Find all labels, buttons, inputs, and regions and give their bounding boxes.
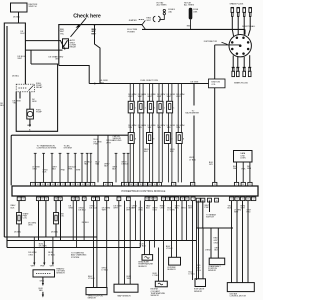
svg-text:8: 8 <box>135 138 136 140</box>
svg-text:LT BLU: LT BLU <box>102 269 109 271</box>
svg-text:8: 8 <box>171 138 172 140</box>
svg-text:LT BLU: LT BLU <box>166 248 173 250</box>
svg-text:23: 23 <box>59 199 61 201</box>
wires middle sensors <box>86 152 89 154</box>
wires brake switch <box>197 201 199 228</box>
svg-text:BLU: BLU <box>0 105 4 107</box>
svg-text:ALL TIMES: ALL TIMES <box>184 4 195 7</box>
svg-text:RED: RED <box>187 25 192 27</box>
svg-text:LT BLU: LT BLU <box>189 159 196 161</box>
svg-text:ORG: ORG <box>181 208 186 210</box>
wire enclosure feed <box>30 50 32 64</box>
svg-text:DK BLU: DK BLU <box>13 17 21 19</box>
fuel injectors row 1 <box>128 101 134 113</box>
wire coil to PCM <box>214 88 216 183</box>
svg-text:DK BLU: DK BLU <box>90 207 98 209</box>
svg-text:21: 21 <box>76 199 78 201</box>
fuel tank enclosure <box>16 64 57 131</box>
svg-text:WHT: WHT <box>31 266 36 268</box>
svg-text:57: 57 <box>42 199 44 201</box>
svg-text:CONTROLS SYSTEM: CONTROLS SYSTEM <box>37 147 57 149</box>
wire to distributor drop <box>244 29 246 34</box>
svg-text:DK BLU: DK BLU <box>12 75 20 77</box>
wires distributor to plugs bottom <box>232 56 234 68</box>
svg-text:35: 35 <box>154 199 156 201</box>
wire injector bus <box>89 83 208 85</box>
node junction bus <box>94 24 96 26</box>
svg-text:WHT: WHT <box>91 33 96 35</box>
svg-text:LT GRN: LT GRN <box>167 210 175 212</box>
svg-text:SPARK PLUGS: SPARK PLUGS <box>234 82 248 85</box>
svg-text:43: 43 <box>247 199 249 201</box>
wire ASD coil bottom <box>25 49 62 51</box>
svg-text:8: 8 <box>183 138 184 140</box>
svg-text:DK BLU: DK BLU <box>82 222 90 224</box>
intake air temp sensor <box>142 255 153 261</box>
svg-text:WHT: WHT <box>128 96 133 98</box>
svg-text:WHT: WHT <box>138 96 143 98</box>
wires TPS <box>93 201 95 288</box>
heated oxygen sensor <box>33 270 55 277</box>
svg-text:ORG: ORG <box>28 224 33 226</box>
svg-text:WHT: WHT <box>147 96 152 98</box>
wire bl3 <box>45 201 47 237</box>
wire brake <box>209 201 211 212</box>
svg-text:DK BLU: DK BLU <box>14 231 22 233</box>
svg-text:SENSOR: SENSOR <box>151 295 160 297</box>
svg-text:SPARK PLUGS: SPARK PLUGS <box>230 3 244 6</box>
spark plugs bottom symbols <box>232 66 235 68</box>
node injector bus <box>94 83 96 85</box>
wires data link to PCM <box>236 162 238 182</box>
svg-text:ORG: ORG <box>214 242 219 244</box>
PCM top connectors mid <box>86 182 90 186</box>
ballast resistor 1 <box>18 201 20 213</box>
distributor <box>229 35 251 57</box>
svg-text:WHT: WHT <box>18 58 23 60</box>
wires CKP sensor <box>210 228 212 258</box>
svg-text:JUMPER: JUMPER <box>129 20 138 22</box>
arrow check here <box>71 18 87 37</box>
svg-text:PNK: PNK <box>68 169 73 171</box>
svg-text:54: 54 <box>216 200 218 202</box>
svg-text:DK GRN: DK GRN <box>191 82 199 84</box>
svg-text:SENSOR: SENSOR <box>88 298 97 300</box>
svg-text:TAN: TAN <box>128 126 132 129</box>
spark plugs top symbols <box>231 6 234 8</box>
wires arrows O2 <box>33 237 35 263</box>
wire coil feed <box>214 45 216 79</box>
svg-text:WHT: WHT <box>50 266 55 268</box>
svg-text:LT BLU: LT BLU <box>153 275 160 277</box>
relay ASD box <box>63 39 69 49</box>
wires IAC <box>231 201 233 283</box>
svg-text:DK BLU: DK BLU <box>121 163 129 165</box>
PCM bottom connectors g1 <box>17 197 21 201</box>
wires mid right <box>135 201 137 241</box>
svg-text:TAN: TAN <box>95 162 99 165</box>
svg-text:DENSITY HALL: DENSITY HALL <box>242 25 256 28</box>
svg-text:20: 20 <box>72 199 74 201</box>
svg-text:TAN: TAN <box>138 126 142 129</box>
svg-text:PUMP: PUMP <box>36 111 42 113</box>
wire main bus <box>59 25 142 66</box>
svg-text:MAP SENSOR: MAP SENSOR <box>118 294 132 297</box>
svg-text:LT BLU: LT BLU <box>189 274 196 276</box>
connector inline <box>153 16 155 22</box>
svg-text:17: 17 <box>128 199 130 201</box>
svg-text:BLK: BLK <box>175 207 179 209</box>
PCM bottom connectors g3 <box>145 197 149 201</box>
wire left loop inner <box>6 26 8 248</box>
svg-text:TAN: TAN <box>84 162 88 165</box>
PCM bottom connectors g2 <box>71 197 75 201</box>
svg-text:ORG: ORG <box>55 59 60 61</box>
svg-text:SWITCH: SWITCH <box>206 217 214 219</box>
svg-text:BLK: BLK <box>11 207 15 209</box>
svg-text:TAN: TAN <box>176 126 180 129</box>
svg-text:BLK: BLK <box>43 172 47 174</box>
fuse B <box>163 9 165 11</box>
distributor contacts <box>247 48 250 51</box>
svg-text:ORG: ORG <box>32 169 37 171</box>
svg-text:WHT: WHT <box>167 96 172 98</box>
fuel pump relay <box>16 84 34 92</box>
svg-text:34: 34 <box>46 199 48 201</box>
wires plugs to distributor <box>232 16 233 36</box>
svg-text:PNK: PNK <box>40 266 45 268</box>
svg-text:PNK: PNK <box>94 143 99 145</box>
ballast resistor 2 <box>55 201 57 213</box>
svg-text:LT BLU: LT BLU <box>88 278 95 280</box>
idle air control motor <box>227 283 254 292</box>
svg-text:WHT: WHT <box>146 20 151 22</box>
svg-text:7: 7 <box>193 199 194 201</box>
svg-text:25: 25 <box>176 199 178 201</box>
wire tachometer <box>193 84 195 106</box>
wires MAP <box>118 201 120 285</box>
wire horizontal 240 <box>7 240 196 242</box>
svg-text:ORG: ORG <box>160 207 165 209</box>
svg-text:WHT: WHT <box>176 96 181 98</box>
svg-text:8: 8 <box>153 138 154 140</box>
PCM bottom connectors g5 <box>196 198 200 202</box>
map sensor <box>114 284 138 292</box>
wires starting charging <box>72 201 74 241</box>
wire bus to injectors <box>95 25 101 84</box>
svg-text:SENSOR: SENSOR <box>56 273 65 275</box>
svg-text:GRN: GRN <box>247 168 252 170</box>
throttle position sensor <box>86 288 107 295</box>
svg-text:POWER: POWER <box>127 31 135 33</box>
wire jumper dashed <box>139 18 144 20</box>
svg-text:60: 60 <box>167 199 169 201</box>
svg-text:36: 36 <box>146 199 148 201</box>
PCM top connectors right <box>172 182 176 186</box>
wire to fuse <box>159 15 164 20</box>
svg-text:RELAY: RELAY <box>36 86 43 89</box>
svg-text:GRN: GRN <box>69 207 74 209</box>
wires injector columns <box>129 84 131 183</box>
svg-text:18: 18 <box>150 199 152 201</box>
svg-text:22: 22 <box>97 199 99 201</box>
powertrain control module <box>12 186 258 196</box>
svg-text:CONN: CONN <box>240 158 246 160</box>
svg-text:LT BLU: LT BLU <box>139 245 146 247</box>
wire bl2 <box>38 201 40 241</box>
enclosure middle <box>11 135 128 185</box>
svg-text:RELAY: RELAY <box>70 46 77 49</box>
svg-text:GRY: GRY <box>188 207 193 209</box>
svg-text:1: 1 <box>154 107 155 109</box>
distributor rotor <box>239 44 242 47</box>
wire ASD coil top <box>25 41 65 50</box>
svg-text:ORG: ORG <box>152 210 157 212</box>
svg-text:SWITCH: SWITCH <box>29 6 37 8</box>
svg-text:SENSOR: SENSOR <box>208 270 217 272</box>
svg-text:WHT: WHT <box>106 142 111 144</box>
svg-text:RED: RED <box>139 210 144 212</box>
svg-text:1: 1 <box>145 107 146 109</box>
svg-text:33: 33 <box>182 199 184 201</box>
wire ASD output <box>59 66 89 84</box>
PCM top connectors left <box>31 182 36 186</box>
svg-text:59: 59 <box>55 199 57 201</box>
svg-text:DK BLU: DK BLU <box>51 231 59 233</box>
wire power line <box>142 28 245 30</box>
wire bus fork <box>142 20 145 24</box>
crankshaft position sensor <box>209 258 225 265</box>
svg-text:WHT: WHT <box>113 207 118 209</box>
svg-text:61: 61 <box>163 199 165 201</box>
svg-text:WHT: WHT <box>126 210 131 212</box>
svg-text:1: 1 <box>173 107 174 109</box>
wire horizontal 247 <box>7 247 140 249</box>
svg-text:PNK: PNK <box>61 170 66 172</box>
svg-text:1 RED: 1 RED <box>205 250 211 252</box>
svg-text:DK GRN: DK GRN <box>39 246 47 248</box>
wire O2 ground <box>42 277 44 283</box>
svg-text:WHT: WHT <box>127 278 132 280</box>
ignition switch <box>11 3 28 12</box>
svg-text:32: 32 <box>186 199 188 201</box>
svg-text:POWERTRAIN CONTROL MODULE: POWERTRAIN CONTROL MODULE <box>122 189 166 193</box>
svg-text:SYSTEM: SYSTEM <box>64 147 72 149</box>
svg-text:FUEL INJECTORS: FUEL INJECTORS <box>141 80 159 82</box>
svg-text:ORG: ORG <box>28 254 33 256</box>
svg-text:54: 54 <box>231 199 233 201</box>
wires fuel pump relay out <box>19 92 21 99</box>
svg-text:TACHOMETER: TACHOMETER <box>185 112 199 115</box>
fusible link <box>189 8 193 20</box>
svg-text:GRN: GRN <box>32 101 37 103</box>
svg-text:WHT: WHT <box>76 170 81 172</box>
data link connector <box>234 151 253 163</box>
svg-text:DK GRN: DK GRN <box>49 57 57 59</box>
svg-text:DISTRIBUTOR: DISTRIBUTOR <box>204 41 218 43</box>
svg-text:CONTROL MOTOR: CONTROL MOTOR <box>230 295 247 297</box>
ignition coil <box>209 79 226 88</box>
PCM top connectors injectors <box>124 182 128 186</box>
svg-text:SENSOR: SENSOR <box>167 269 176 271</box>
svg-text:GRN: GRN <box>40 281 45 283</box>
fuel injectors row 2 <box>128 133 134 144</box>
wire fuel pump ground <box>29 119 31 125</box>
svg-text:LT BLU: LT BLU <box>48 254 55 256</box>
svg-text:WHT: WHT <box>102 210 107 212</box>
svg-text:RED: RED <box>247 212 252 214</box>
svg-text:SYSTEM: SYSTEM <box>71 257 79 259</box>
svg-text:DK BLU: DK BLU <box>79 210 87 212</box>
svg-text:WHT: WHT <box>132 207 137 209</box>
wires E box <box>198 228 200 279</box>
wire bl4 <box>60 201 62 241</box>
svg-text:BLK: BLK <box>27 125 31 127</box>
svg-text:ALL TIMES: ALL TIMES <box>157 4 168 7</box>
svg-text:50: 50 <box>236 199 238 201</box>
svg-text:TAN: TAN <box>167 126 171 129</box>
svg-text:1: 1 <box>135 107 136 109</box>
svg-text:1: 1 <box>164 107 165 109</box>
svg-text:52: 52 <box>253 199 255 201</box>
engine coolant temp sensor <box>155 281 167 287</box>
svg-text:SENSOR: SENSOR <box>194 291 203 293</box>
PCM bottom connectors g4 <box>170 197 174 201</box>
cam position sensor <box>169 257 181 265</box>
wires transmission AC <box>34 152 37 154</box>
svg-text:ORG: ORG <box>197 270 202 272</box>
svg-text:PNK: PNK <box>205 207 210 209</box>
svg-text:31: 31 <box>38 199 40 201</box>
svg-text:WHT: WHT <box>157 96 162 98</box>
sensor E box <box>195 279 206 287</box>
svg-text:TRC: TRC <box>60 33 65 35</box>
svg-text:SENSOR: SENSOR <box>138 266 147 268</box>
svg-text:BLU: BLU <box>21 33 25 35</box>
wire horizontal 237 <box>4 236 97 238</box>
svg-text:44: 44 <box>242 199 244 201</box>
wire ignition switch down <box>18 12 20 23</box>
svg-text:TAN: TAN <box>39 289 43 292</box>
svg-text:TAN: TAN <box>147 126 151 129</box>
svg-text:Check here: Check here <box>73 13 101 19</box>
svg-text:TAN: TAN <box>157 126 161 129</box>
PCM bottom connectors g6 <box>229 197 233 201</box>
fuel pump <box>27 109 34 119</box>
svg-text:23: 23 <box>83 199 85 201</box>
wire left loop <box>4 23 25 237</box>
wire horizontal 228 <box>196 227 233 229</box>
